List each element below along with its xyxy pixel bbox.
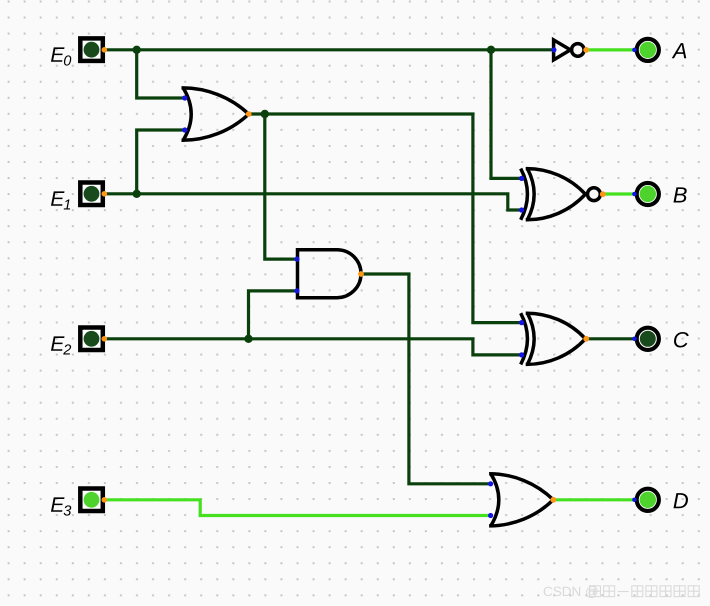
output pin B (632, 183, 659, 205)
wire NOT output to pin A (bright green) (586, 48, 635, 51)
junction on E0 wire at x=136.7 (133, 46, 141, 54)
wire E0 branch down to OR1 top input (137, 50, 185, 98)
AND U2 input dot top (294, 257, 299, 262)
junction on E2 wire (244, 335, 252, 343)
label D (673, 493, 688, 508)
wire OR2 output to pin D (bright green) (553, 498, 635, 501)
AND U2 output dot (358, 271, 364, 277)
XOR U5 input dot bottom (519, 352, 524, 357)
wire E1 horizontal with jog to XNOR bottom input (105, 194, 521, 210)
XOR U5 output dot (583, 336, 589, 342)
output pin D (632, 489, 659, 511)
label B (673, 187, 686, 202)
junction on E0 wire at x=491 (487, 46, 495, 54)
wire E2 branch up to AND bottom input (249, 291, 298, 339)
junction on E1 wire (133, 190, 141, 198)
OR gate U1 (182, 88, 249, 140)
XNOR gate U4 (521, 169, 601, 220)
watermark (543, 584, 599, 599)
input pin E1 (80, 183, 107, 206)
junction on OR1 output wire (261, 110, 269, 118)
wire E1 branch up to OR1 bottom input (137, 130, 185, 194)
OR U6 output dot (550, 497, 556, 503)
AND U2 input dot bottom (294, 288, 299, 293)
label E3 (51, 497, 65, 511)
label C (674, 332, 689, 348)
NOT U3 input dot (551, 47, 556, 52)
wire OR1 output to junction then right and down to XOR top input (249, 114, 521, 323)
output pin C (632, 328, 659, 350)
input pin E0 (80, 38, 107, 61)
OR U1 input dot bottom (182, 127, 187, 132)
wire XOR output to pin C (dark green) (586, 337, 635, 340)
label E1 (51, 191, 65, 205)
output pin A (632, 39, 659, 61)
wire XNOR output to pin B (bright green) (602, 192, 635, 195)
OR gate U6 (489, 474, 553, 526)
XNOR U4 output dot (600, 191, 606, 197)
OR U1 output dot (246, 111, 252, 117)
XOR U5 input dot top (519, 320, 524, 325)
input pin E2 (80, 328, 107, 351)
input pin E3 (80, 489, 107, 512)
wire OR1 junction down to AND top input (265, 114, 297, 259)
wire AND output down to OR2 top input (361, 274, 490, 484)
XNOR U4 input dot bottom (519, 207, 524, 212)
AND gate U2 (298, 250, 362, 298)
wire E0 branch down to XNOR top input (491, 50, 521, 179)
label A (672, 43, 687, 58)
label E2 (51, 336, 65, 350)
OR U1 input dot top (182, 95, 187, 100)
wire E3 with jog to OR2 bottom input (bright green) (105, 500, 490, 516)
XNOR U4 input dot top (519, 176, 524, 181)
XOR gate U5 (521, 313, 586, 364)
label E0 (51, 47, 65, 61)
NOT gate U3 (554, 40, 585, 60)
NOT U3 output dot (583, 47, 589, 53)
OR U6 input dot top (488, 481, 493, 486)
wire E2 horizontal with jog down to XOR bottom input (105, 339, 521, 355)
wire E0 horizontal to NOT input (105, 48, 554, 51)
OR U6 input dot bottom (488, 513, 493, 518)
